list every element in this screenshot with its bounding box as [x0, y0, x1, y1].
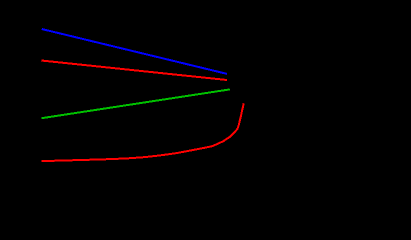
red line (upper, gently descending) — [41, 61, 227, 81]
blue line (top, descending) — [42, 29, 227, 74]
green line (middle, ascending) — [42, 89, 230, 118]
red curve (bottom, rising steeply at right) — [42, 103, 244, 161]
